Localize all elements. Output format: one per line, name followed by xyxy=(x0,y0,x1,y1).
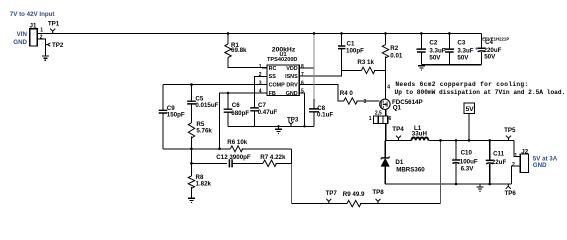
svg-text:6: 6 xyxy=(389,116,392,122)
svg-text:C2: C2 xyxy=(429,40,437,47)
svg-text:Needs 6cm2 copperpad for cooli: Needs 6cm2 copperpad for cooling: xyxy=(395,81,528,88)
svg-text:2: 2 xyxy=(259,72,262,78)
svg-text:200kHz: 200kHz xyxy=(272,47,296,54)
svg-text:Q1: Q1 xyxy=(393,105,402,112)
svg-text:VIN: VIN xyxy=(17,31,28,38)
svg-text:50V: 50V xyxy=(457,54,469,61)
svg-text:J2: J2 xyxy=(521,148,528,155)
svg-text:DRV: DRV xyxy=(286,83,298,89)
svg-text:TP1: TP1 xyxy=(48,21,60,28)
svg-text:0.1uF: 0.1uF xyxy=(317,111,333,118)
svg-text:GND: GND xyxy=(13,39,27,46)
svg-text:5: 5 xyxy=(301,89,304,95)
svg-text:2,5: 2,5 xyxy=(375,111,382,117)
svg-text:TP4: TP4 xyxy=(392,126,404,133)
svg-text:4: 4 xyxy=(259,89,262,95)
svg-text:TP7: TP7 xyxy=(326,190,338,197)
svg-text:2: 2 xyxy=(512,162,515,168)
svg-text:C12 3900pF: C12 3900pF xyxy=(216,154,251,161)
svg-text:RC: RC xyxy=(269,66,277,72)
svg-text:VDD: VDD xyxy=(286,66,297,72)
svg-text:D1: D1 xyxy=(395,159,403,166)
svg-text:1: 1 xyxy=(259,64,262,70)
svg-text:0.015uF: 0.015uF xyxy=(195,102,218,109)
svg-text:TP5: TP5 xyxy=(504,127,516,134)
svg-text:ISNS: ISNS xyxy=(285,74,298,80)
svg-text:MBRS360: MBRS360 xyxy=(396,166,425,173)
svg-text:R9 49.9: R9 49.9 xyxy=(343,191,365,198)
svg-text:2: 2 xyxy=(40,35,43,41)
svg-text:680pF: 680pF xyxy=(231,110,249,117)
svg-text:R7 4.22k: R7 4.22k xyxy=(260,154,286,161)
svg-text:0.47uF: 0.47uF xyxy=(258,109,278,116)
svg-text:50V: 50V xyxy=(429,54,441,61)
svg-text:6: 6 xyxy=(301,80,304,86)
svg-text:0.01: 0.01 xyxy=(390,53,403,60)
svg-text:R4 0: R4 0 xyxy=(340,90,354,97)
svg-text:R2: R2 xyxy=(390,45,398,52)
svg-text:FB: FB xyxy=(269,91,276,97)
svg-text:6.3V: 6.3V xyxy=(461,165,475,172)
svg-text:4: 4 xyxy=(387,84,390,90)
svg-text:100pF: 100pF xyxy=(346,48,364,55)
svg-text:R3 1k: R3 1k xyxy=(357,59,374,66)
svg-text:3: 3 xyxy=(259,80,262,86)
svg-text:7: 7 xyxy=(301,72,304,78)
svg-text:1.82k: 1.82k xyxy=(196,181,212,188)
svg-text:C11: C11 xyxy=(493,150,505,157)
svg-text:TP2: TP2 xyxy=(52,42,64,49)
svg-text:COMP: COMP xyxy=(269,83,286,89)
svg-text:7V to 42V Input: 7V to 42V Input xyxy=(10,11,55,18)
svg-text:22uF: 22uF xyxy=(492,159,507,166)
svg-text:GND: GND xyxy=(533,162,547,169)
svg-text:1: 1 xyxy=(514,153,517,159)
svg-text:1: 1 xyxy=(369,116,372,122)
svg-text:5.76k: 5.76k xyxy=(196,128,212,135)
svg-text:TP6: TP6 xyxy=(505,190,517,197)
svg-text:C3: C3 xyxy=(457,40,465,47)
svg-text:8: 8 xyxy=(301,64,304,70)
svg-text:TP8: TP8 xyxy=(372,189,384,196)
svg-text:69.8k: 69.8k xyxy=(231,47,247,54)
svg-text:3: 3 xyxy=(364,99,367,105)
svg-text:R6 10k: R6 10k xyxy=(227,139,248,146)
svg-text:50V: 50V xyxy=(484,54,496,61)
svg-text:33uH: 33uH xyxy=(412,130,428,137)
svg-text:SS: SS xyxy=(269,74,277,80)
svg-text:C6: C6 xyxy=(232,102,240,109)
svg-text:5V: 5V xyxy=(466,106,475,113)
svg-text:J1: J1 xyxy=(30,23,37,30)
svg-text:C10: C10 xyxy=(461,150,473,157)
svg-text:TPS40200D: TPS40200D xyxy=(267,57,297,63)
svg-text:EEVE1H221P: EEVE1H221P xyxy=(482,36,509,41)
svg-text:150pF: 150pF xyxy=(167,111,185,118)
svg-text:Up to 800mW dissipation at 7Vi: Up to 800mW dissipation at 7Vin and 2.5A… xyxy=(395,89,566,96)
svg-text:GND: GND xyxy=(286,91,298,97)
svg-text:TP3: TP3 xyxy=(287,117,299,124)
svg-text:1: 1 xyxy=(40,28,43,34)
